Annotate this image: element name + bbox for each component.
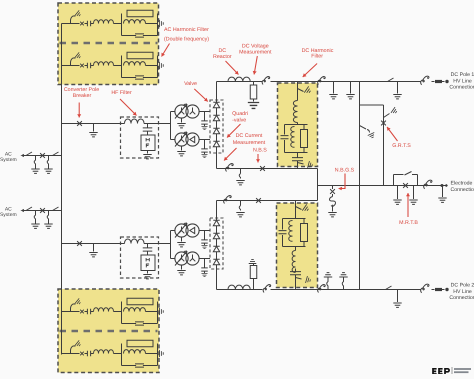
svg-text:Measurement: Measurement [239,50,272,56]
svg-text:HV Line: HV Line [453,289,472,295]
svg-text:M.R.T.B: M.R.T.B [399,220,418,226]
svg-text:G.R.T.S: G.R.T.S [392,143,411,149]
svg-text:HV Line: HV Line [453,78,472,84]
svg-text:Connection: Connection [449,85,474,91]
svg-text:DC Current: DC Current [236,133,263,139]
svg-text:Reactor: Reactor [213,54,232,60]
svg-text:-valve: -valve [232,117,246,123]
svg-text:Connection: Connection [451,187,474,193]
svg-text:Breaker: Breaker [73,93,92,99]
svg-text:Measurement: Measurement [233,140,266,146]
svg-text:System: System [0,212,17,218]
svg-text:Filter: Filter [311,54,323,60]
svg-text:HF Filter: HF Filter [111,90,132,96]
svg-text:N.B.S: N.B.S [253,147,267,153]
svg-text:(Double frequency): (Double frequency) [164,36,209,42]
svg-text:DC Pole 2: DC Pole 2 [451,283,474,289]
svg-text:Connection: Connection [449,295,474,301]
svg-text:Quadri: Quadri [232,111,248,117]
svg-text:DC Pole 1: DC Pole 1 [451,72,474,78]
svg-text:AC Harmonic Filter: AC Harmonic Filter [164,27,209,33]
svg-text:Electrode Line: Electrode Line [451,181,474,187]
svg-text:N.B.G.S: N.B.G.S [335,168,355,174]
svg-text:Valve: Valve [184,81,197,87]
svg-text:System: System [0,157,17,163]
